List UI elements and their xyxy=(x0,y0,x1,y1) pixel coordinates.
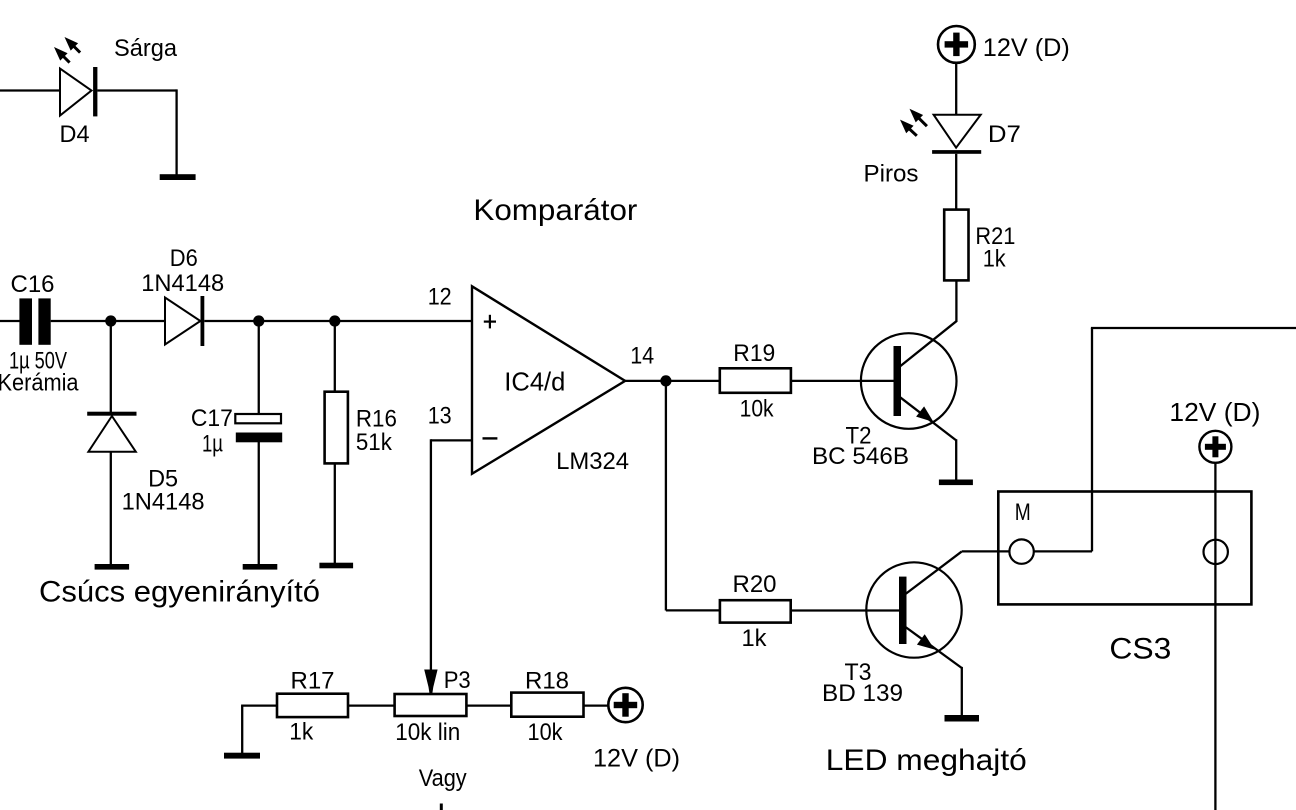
svg-text:R20: R20 xyxy=(733,571,777,598)
wire right power drop xyxy=(1214,463,1216,810)
wire inverting input xyxy=(431,439,472,441)
wire R17 to P3 xyxy=(348,704,395,706)
capacitor C16 xyxy=(19,298,50,344)
svg-text:13: 13 xyxy=(428,403,452,430)
wire T3 collector horizontal xyxy=(962,550,1010,552)
wire P3 to R18 xyxy=(466,704,511,706)
svg-text:12V (D): 12V (D) xyxy=(1169,397,1260,427)
resistor R17 xyxy=(277,694,348,717)
svg-text:Csúcs egyenirányító: Csúcs egyenirányító xyxy=(39,576,320,609)
resistor R16 xyxy=(325,392,348,464)
wire R18 to power xyxy=(584,704,608,706)
svg-text:D4: D4 xyxy=(60,121,90,148)
ground R16 xyxy=(319,563,353,569)
LED D4 xyxy=(60,67,97,116)
power 12V (D) top xyxy=(938,26,975,63)
svg-text:R17: R17 xyxy=(291,667,335,694)
svg-text:1k: 1k xyxy=(289,719,314,746)
wire main rail left xyxy=(0,320,20,322)
contact circle M xyxy=(1009,539,1033,563)
resistor R19 xyxy=(720,368,791,393)
svg-text:12V (D): 12V (D) xyxy=(593,745,680,773)
wire T3 emitter vertical xyxy=(961,667,963,716)
svg-text:12V (D): 12V (D) xyxy=(983,34,1070,62)
relay box CS3 xyxy=(998,492,1251,605)
svg-text:P3: P3 xyxy=(444,667,471,694)
svg-text:10k: 10k xyxy=(528,719,564,746)
svg-text:LED meghajtó: LED meghajtó xyxy=(826,744,1027,777)
capacitor C17 xyxy=(235,414,282,442)
resistor R20 xyxy=(720,600,791,622)
svg-text:51k: 51k xyxy=(356,429,393,456)
wire C17 top drop xyxy=(258,321,260,415)
resistor R21 xyxy=(944,210,968,281)
wire to R20 xyxy=(666,609,720,611)
LED D7 xyxy=(932,115,981,154)
LED D7 light arrow 2 xyxy=(900,120,917,136)
svg-text:14: 14 xyxy=(630,343,654,370)
svg-text:Sárga: Sárga xyxy=(114,35,178,62)
svg-text:R19: R19 xyxy=(733,340,775,367)
svg-text:LM324: LM324 xyxy=(556,448,629,475)
P3 wiper arrow xyxy=(424,670,437,694)
transistor T2 xyxy=(861,321,957,440)
node junction rail-C17 xyxy=(253,315,264,326)
svg-text:C16: C16 xyxy=(11,271,55,298)
wire R21 to D7 xyxy=(955,154,957,209)
wire D4 cathode xyxy=(97,89,176,91)
svg-text:D7: D7 xyxy=(988,121,1021,148)
svg-text:1N4148: 1N4148 xyxy=(141,270,224,297)
svg-text:1N4148: 1N4148 xyxy=(122,489,205,516)
wire inverting input vertical to P3 xyxy=(430,439,432,670)
svg-text:Kerámia: Kerámia xyxy=(0,370,79,397)
svg-text:BC 546B: BC 546B xyxy=(812,443,909,470)
potentiometer P3 xyxy=(395,694,467,716)
wire ground to R17 xyxy=(241,704,277,706)
wire D4 to ground xyxy=(175,89,177,174)
wire R16 to ground xyxy=(334,463,336,564)
power 12V (D) bottom xyxy=(608,688,642,722)
wire stub below Vagy xyxy=(440,804,443,810)
svg-text:R18: R18 xyxy=(525,667,569,694)
ground T2 xyxy=(939,480,973,486)
op-amp IC4/d xyxy=(472,286,625,474)
svg-text:10k lin: 10k lin xyxy=(395,719,460,746)
svg-text:C17: C17 xyxy=(191,405,233,432)
svg-text:Piros: Piros xyxy=(864,161,919,188)
wire T2 collector vertical xyxy=(955,280,957,323)
wire rail D6 to op-amp xyxy=(204,320,472,322)
wire op-amp output xyxy=(625,380,720,382)
svg-text:1µ: 1µ xyxy=(202,431,223,458)
wire M contact to riser xyxy=(1034,550,1092,552)
diode D6 xyxy=(165,296,204,346)
wire output down xyxy=(665,381,667,611)
svg-text:10k: 10k xyxy=(740,396,775,423)
wire R19 to T2 base xyxy=(791,380,894,382)
svg-text:Komparátor: Komparátor xyxy=(473,194,637,227)
LED D7 light arrow 1 xyxy=(910,109,927,126)
wire D5 anode drop xyxy=(110,321,112,412)
diode D5 xyxy=(87,412,136,452)
wire D5 to ground xyxy=(110,452,112,565)
contact circle right xyxy=(1204,540,1228,564)
ground C17 xyxy=(243,564,278,570)
svg-text:1k: 1k xyxy=(983,246,1007,273)
wire T2 emitter vertical xyxy=(955,439,957,480)
svg-text:IC4/d: IC4/d xyxy=(504,367,565,397)
svg-text:D6: D6 xyxy=(170,245,198,272)
ground D4 xyxy=(160,174,196,180)
ground R17 xyxy=(224,753,260,759)
wire R16 top drop xyxy=(334,321,336,392)
LED D4 light arrow 1 xyxy=(65,37,81,53)
LED D4 light arrow 2 xyxy=(54,47,70,63)
svg-text:12: 12 xyxy=(428,284,452,311)
power 12V (D) right xyxy=(1199,431,1231,463)
wire D7 top xyxy=(955,63,957,115)
svg-text:BD 139: BD 139 xyxy=(822,680,903,707)
transistor T3 xyxy=(866,551,962,668)
wire R20 to T3 base xyxy=(791,609,899,611)
ground D5 xyxy=(95,564,130,570)
wire C17 to ground xyxy=(258,442,260,565)
node junction rail-R16 xyxy=(329,315,340,326)
svg-text:1k: 1k xyxy=(742,625,768,652)
svg-text:CS3: CS3 xyxy=(1109,632,1171,665)
svg-text:Vagy: Vagy xyxy=(419,765,467,792)
wire top right rail xyxy=(1091,327,1296,329)
wire D4 anode from left edge xyxy=(0,89,60,91)
wire riser vertical xyxy=(1091,328,1093,551)
resistor R18 xyxy=(511,693,583,717)
ground T3 xyxy=(945,715,980,722)
svg-text:M: M xyxy=(1015,499,1031,526)
node output junction xyxy=(660,375,671,386)
wire R17 ground riser xyxy=(241,706,243,753)
wire rail C16 to D6 xyxy=(51,320,165,322)
node junction rail-D5 xyxy=(105,315,116,326)
